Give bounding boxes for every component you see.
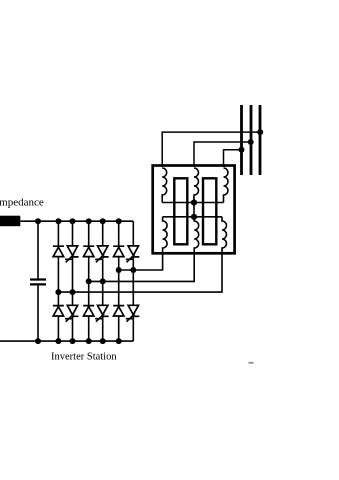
svg-text:Inverter Station: Inverter Station [51,352,117,363]
svg-text:Impedance: Impedance [0,196,44,208]
